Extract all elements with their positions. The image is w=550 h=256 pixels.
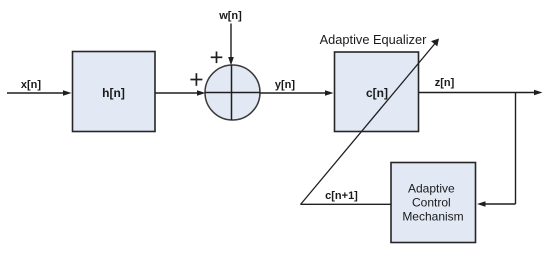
svg-text:c[n]: c[n] — [366, 86, 388, 100]
svg-text:y[n]: y[n] — [275, 79, 296, 91]
svg-text:h[n]: h[n] — [102, 86, 125, 100]
svg-text:c[n+1]: c[n+1] — [325, 190, 358, 202]
svg-text:x[n]: x[n] — [21, 79, 42, 91]
svg-text:Adaptive Equalizer: Adaptive Equalizer — [320, 32, 427, 47]
svg-text:w[n]: w[n] — [218, 10, 242, 22]
svg-text:z[n]: z[n] — [435, 77, 455, 89]
